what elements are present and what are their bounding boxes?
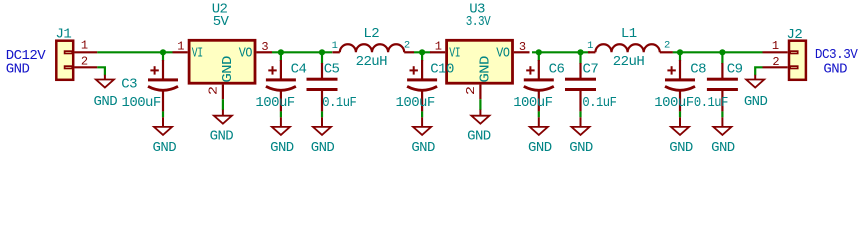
reference L2 <box>363 26 379 42</box>
svg-text:100uF: 100uF <box>122 95 161 111</box>
wire J1 pin1 to U2 VI <box>97 51 172 53</box>
svg-text:0.1uF: 0.1uF <box>694 95 728 111</box>
ground label GND below C4 <box>270 140 294 156</box>
junction node C10 <box>419 49 425 55</box>
ground label GND below C9 <box>711 140 735 156</box>
svg-text:100uF: 100uF <box>255 95 294 111</box>
svg-text:L1: L1 <box>621 26 637 42</box>
wire L2 pin2 to U3 VI <box>414 51 430 53</box>
svg-text:GND: GND <box>823 62 847 78</box>
pin number 1 of U3 <box>435 40 442 54</box>
pin name VI of U2 <box>192 46 203 62</box>
wire C7 top <box>579 52 581 64</box>
svg-text:1: 1 <box>587 40 593 52</box>
svg-text:C9: C9 <box>727 62 743 78</box>
pin 1 of U2 <box>173 51 188 53</box>
ground label GND below C10 <box>411 140 435 156</box>
svg-text:GND: GND <box>210 129 234 145</box>
svg-text:0.1uF: 0.1uF <box>582 95 616 111</box>
pin 1 of J2 <box>763 51 788 53</box>
pin name VO of U2 <box>239 46 252 62</box>
ground label GND below C6 <box>528 140 552 156</box>
svg-text:2: 2 <box>464 86 478 95</box>
ground symbol below C10 <box>413 117 431 135</box>
svg-text:J1: J1 <box>56 26 72 42</box>
wire C9 top <box>721 52 723 64</box>
pin number 3 of U3 <box>519 40 526 54</box>
svg-text:GND: GND <box>220 56 236 83</box>
capacitor C5 <box>307 63 338 111</box>
value 100uF of C6 <box>513 95 552 111</box>
wire U3 pin2 to GND <box>479 99 481 110</box>
pin 2 of U3 <box>479 85 481 100</box>
label GND at J2 <box>823 62 847 78</box>
svg-text:C5: C5 <box>324 62 340 78</box>
pin 1 of J1 <box>74 51 97 53</box>
pin name VI of U3 <box>449 46 460 62</box>
junction node C3 <box>160 49 166 55</box>
svg-text:2: 2 <box>404 39 410 51</box>
pin number 1 of J2 <box>772 39 779 53</box>
svg-text:GND: GND <box>669 140 693 156</box>
inductor L2 <box>332 44 414 52</box>
pin name GND of U2 <box>220 56 236 83</box>
voltage regulator U3 <box>447 40 513 83</box>
svg-text:C7: C7 <box>583 62 599 78</box>
svg-text:3: 3 <box>261 40 268 54</box>
svg-text:GND: GND <box>6 62 30 78</box>
pin 1 of U3 <box>430 51 445 53</box>
wire U3 VO to L1 pin1 <box>532 51 590 53</box>
svg-text:C3: C3 <box>121 76 137 92</box>
label DC12V (net DC12V) <box>6 48 46 64</box>
capacitor C6 (polarized) <box>524 60 554 111</box>
svg-text:0.1uF: 0.1uF <box>322 95 356 111</box>
label GND at J1 <box>6 62 30 78</box>
ground symbol below C8 <box>671 117 689 135</box>
wire C4 top <box>280 52 282 61</box>
value 3.3V of U3 <box>466 14 491 30</box>
capacitor C3 (polarized) <box>148 60 178 111</box>
wire C5 top <box>321 52 323 64</box>
svg-text:C6: C6 <box>549 62 565 78</box>
svg-text:3.3V: 3.3V <box>466 14 491 30</box>
pin number 1 of L2 <box>332 40 338 52</box>
pin number 2 of J1 <box>81 54 88 68</box>
svg-text:1: 1 <box>435 40 442 54</box>
pin 2 of J2 <box>763 66 788 68</box>
junction node C5 <box>319 49 325 55</box>
wire C3 to GND <box>162 111 164 117</box>
svg-text:L2: L2 <box>363 26 379 42</box>
ground label GND at J2 pin2 <box>744 94 768 110</box>
pin number 2 of L2 <box>404 39 410 51</box>
svg-text:GND: GND <box>311 140 335 156</box>
capacitor C7 <box>565 63 596 111</box>
svg-text:GND: GND <box>153 140 177 156</box>
value 0.1uF of C5 <box>322 95 356 111</box>
junction node C7 <box>577 49 583 55</box>
wire C5 to GND <box>321 111 323 117</box>
svg-text:GND: GND <box>744 94 768 110</box>
value 0.1uF of C9 <box>694 95 728 111</box>
pin 3 of U2 <box>256 51 272 53</box>
wire C4 to GND <box>280 111 282 117</box>
svg-text:1: 1 <box>81 39 88 53</box>
pin number 2 of J2 <box>772 55 779 69</box>
value 100uF of C3 <box>122 95 161 111</box>
connector J2 body <box>789 41 806 80</box>
wire J2 pin2 to GND <box>755 67 762 75</box>
ground label GND below U2 <box>210 129 234 145</box>
capacitor C4 (polarized) <box>266 60 296 111</box>
pin number 1 of J1 <box>81 39 88 53</box>
svg-text:1: 1 <box>772 39 779 53</box>
wire C7 to GND <box>579 111 581 117</box>
capacitor C8 (polarized) <box>665 60 695 111</box>
wire U2 pin2 to GND <box>222 99 224 110</box>
ground label GND below C7 <box>569 140 593 156</box>
reference C3 <box>121 76 137 92</box>
pin number 1 of U2 <box>177 40 184 54</box>
inductor L1 <box>588 44 673 52</box>
svg-text:GND: GND <box>711 140 735 156</box>
pin 3 of U3 <box>514 51 530 53</box>
pin number 1 of L1 <box>587 40 593 52</box>
ground symbol below C3 <box>154 117 172 135</box>
svg-text:C10: C10 <box>430 62 454 78</box>
svg-text:C4: C4 <box>291 62 307 78</box>
wire C6 top <box>538 52 540 61</box>
junction node C8 <box>677 49 683 55</box>
value 100uF of C10 <box>396 95 435 111</box>
pin number 2 of U2 <box>207 86 221 95</box>
wire U2 VO to L2 pin1 <box>272 51 332 53</box>
ground symbol below U3 <box>471 110 489 124</box>
ground symbol at J1 pin2 <box>96 75 114 88</box>
label DC3.3V (net DC3.3V) <box>815 47 859 63</box>
value 22uH of L2 <box>356 54 388 70</box>
svg-text:2: 2 <box>664 39 670 51</box>
reference J2 <box>787 27 803 43</box>
junction node C6 <box>536 49 542 55</box>
wire C3 top <box>162 52 164 61</box>
svg-text:22uH: 22uH <box>356 54 388 70</box>
pin number 2 of U3 <box>464 86 478 95</box>
capacitor C10 (polarized) <box>407 60 437 111</box>
svg-text:100uF: 100uF <box>513 95 552 111</box>
wire C8 to GND <box>679 111 681 117</box>
value 0.1uF of C7 <box>582 95 616 111</box>
svg-text:GND: GND <box>467 129 491 145</box>
junction node C9 <box>719 49 725 55</box>
ground symbol at J2 pin2 <box>746 75 764 88</box>
svg-text:J2: J2 <box>787 27 803 43</box>
wire C10 to GND <box>421 111 423 117</box>
svg-text:GND: GND <box>478 56 494 83</box>
wire L1 pin2 to J2 pin1 <box>673 51 763 53</box>
ground label GND below C8 <box>669 140 693 156</box>
junction node C4 <box>278 49 284 55</box>
wire J1 pin2 to GND <box>97 67 105 75</box>
reference U2 <box>212 2 228 18</box>
reference C7 <box>583 62 599 78</box>
capacitor C9 <box>707 63 738 111</box>
reference L1 <box>621 26 637 42</box>
value 100uF of C4 <box>255 95 294 111</box>
pin number 3 of U2 <box>261 40 268 54</box>
ground label GND below C3 <box>153 140 177 156</box>
ground label GND below C5 <box>311 140 335 156</box>
svg-text:GND: GND <box>94 94 118 110</box>
pin number 2 of L1 <box>664 39 670 51</box>
svg-text:2: 2 <box>772 55 779 69</box>
reference C8 <box>690 62 706 78</box>
svg-text:1: 1 <box>332 40 338 52</box>
svg-text:VO: VO <box>239 46 252 62</box>
voltage regulator U2 <box>189 40 255 83</box>
connector J1 body <box>56 41 73 80</box>
value 5V of U2 <box>213 14 230 30</box>
pin name VO of U3 <box>496 46 509 62</box>
svg-text:GND: GND <box>528 140 552 156</box>
wire C8 top <box>679 52 681 61</box>
svg-text:1: 1 <box>177 40 184 54</box>
svg-text:22uH: 22uH <box>613 54 645 70</box>
svg-text:VI: VI <box>449 46 460 62</box>
svg-text:GND: GND <box>569 140 593 156</box>
svg-text:VI: VI <box>192 46 203 62</box>
reference J1 <box>56 26 72 42</box>
ground label GND at J1 pin2 <box>94 94 118 110</box>
ground symbol below C5 <box>313 117 331 135</box>
reference C10 <box>430 62 454 78</box>
svg-text:100uF: 100uF <box>654 95 693 111</box>
ground symbol below C7 <box>572 117 590 135</box>
ground symbol below C4 <box>272 117 290 135</box>
wire C9 to GND <box>721 111 723 117</box>
ground label GND below U3 <box>467 129 491 145</box>
reference C6 <box>549 62 565 78</box>
ground symbol below U2 <box>214 110 232 124</box>
pin 2 of U2 <box>222 85 224 100</box>
svg-text:5V: 5V <box>213 14 230 30</box>
value 22uH of L1 <box>613 54 645 70</box>
reference C4 <box>291 62 307 78</box>
svg-text:GND: GND <box>411 140 435 156</box>
value 100uF of C8 <box>654 95 693 111</box>
pin name GND of U3 <box>478 56 494 83</box>
svg-text:C8: C8 <box>690 62 706 78</box>
ground symbol below C9 <box>713 117 731 135</box>
svg-text:2: 2 <box>81 54 88 68</box>
svg-text:GND: GND <box>270 140 294 156</box>
svg-text:3: 3 <box>519 40 526 54</box>
reference U3 <box>469 2 485 18</box>
wire C6 to GND <box>538 111 540 117</box>
svg-text:VO: VO <box>496 46 509 62</box>
reference C5 <box>324 62 340 78</box>
svg-text:2: 2 <box>207 86 221 95</box>
wire C10 top <box>421 52 423 61</box>
ground symbol below C6 <box>530 117 548 135</box>
pin 2 of J1 <box>74 66 97 68</box>
svg-text:100uF: 100uF <box>396 95 435 111</box>
reference C9 <box>727 62 743 78</box>
